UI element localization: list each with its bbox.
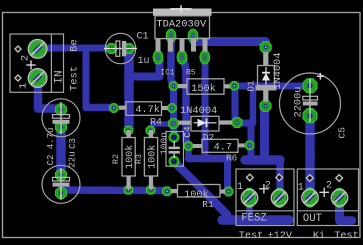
wire net-OUT R5.right down to D2.cathode xyxy=(232,88,239,119)
FESZ wire hole 1 xyxy=(246,174,253,181)
IN wire hole 2 xyxy=(15,46,21,52)
C2 plates xyxy=(53,102,70,134)
capacitor C5 outline xyxy=(280,73,341,134)
pad R4 left xyxy=(110,104,119,113)
svg-text:Test: Test xyxy=(69,66,81,91)
svg-text:IC1: IC1 xyxy=(160,69,175,78)
FESZ origin cross xyxy=(259,184,269,194)
wire net-12V horizontal xyxy=(245,155,280,165)
connector FESZ outline xyxy=(236,169,294,226)
wire net-INP up to TDA pin1 xyxy=(156,59,164,77)
wire net-IN1 IN.1 down xyxy=(34,77,43,109)
wire net-12V down to FESZ.2 xyxy=(276,160,284,194)
svg-text:2200u: 2200u xyxy=(293,87,305,118)
wire net-INM R5.left to D2.anode xyxy=(170,86,177,124)
pad R5 left xyxy=(169,82,178,91)
wire net-INM branch to R3.top xyxy=(153,121,174,127)
wire net-INP C1.right down column xyxy=(124,52,134,129)
wire net-BE to R4.left xyxy=(86,104,112,112)
D1 diode symbol xyxy=(262,67,270,85)
pad C3 minus xyxy=(56,188,67,199)
svg-text:C1: C1 xyxy=(136,31,148,42)
svg-text:1u: 1u xyxy=(137,56,149,67)
op-amp IC1 TDA2030V body xyxy=(155,16,210,39)
capacitor C4 100n outline xyxy=(166,132,184,167)
pad C2 minus xyxy=(56,122,67,133)
svg-text:1: 1 xyxy=(18,83,30,89)
svg-text:+12V: +12V xyxy=(268,231,293,242)
C3 plates xyxy=(53,168,70,200)
pad D1 cathode xyxy=(260,42,271,53)
resistor R6 body xyxy=(193,139,245,152)
svg-text:R3: R3 xyxy=(134,154,144,164)
svg-text:TDA2030V: TDA2030V xyxy=(156,19,207,31)
resistor R1 body xyxy=(171,185,225,198)
pad C5 plus xyxy=(303,79,317,93)
svg-text:150k: 150k xyxy=(191,83,215,95)
D2 diode symbol xyxy=(194,119,217,128)
pad C5 minus xyxy=(303,109,317,123)
pad R3 top xyxy=(146,126,155,135)
C5 plates xyxy=(303,79,318,122)
resistor R2 body xyxy=(122,130,135,189)
IN wire hole 1 xyxy=(15,75,21,81)
capacitor C1 outline xyxy=(105,33,135,63)
IN origin cross xyxy=(26,60,35,69)
pad R5 right xyxy=(230,82,239,91)
svg-text:OUT: OUT xyxy=(303,213,322,225)
pad IC1 pin 1 xyxy=(153,50,163,64)
pad OUT pin 1 xyxy=(302,188,318,207)
pad C4 bottom xyxy=(169,156,179,166)
svg-text:IN: IN xyxy=(53,70,65,83)
svg-text:R4: R4 xyxy=(150,117,162,128)
pad R1 right xyxy=(224,187,233,196)
wire net-OUT D2.cathode stub xyxy=(239,120,253,127)
svg-text:C4: C4 xyxy=(182,126,193,138)
resistor R4 body xyxy=(119,102,168,116)
C4 plates xyxy=(169,141,180,158)
svg-text:D1: D1 xyxy=(246,80,257,92)
wire net-GND FESZ.1 stub xyxy=(246,199,253,216)
OUT wire hole 2 xyxy=(336,175,343,182)
svg-text:4.7k: 4.7k xyxy=(135,104,159,116)
wire net-INP branch right xyxy=(129,73,160,81)
wire net-BE branch down at x86 xyxy=(83,48,90,106)
wire net-INM TDA pin2 down xyxy=(171,38,174,86)
svg-text:22u: 22u xyxy=(68,151,78,167)
connector OUT outline xyxy=(297,169,358,226)
wire net-GND C3.minus to R1.left xyxy=(61,186,165,194)
svg-text:FESZ: FESZ xyxy=(241,213,266,225)
OUT origin cross xyxy=(319,188,329,198)
svg-text:100n: 100n xyxy=(159,132,170,155)
pad R6 right xyxy=(245,141,254,150)
pad IN pin 2 xyxy=(28,40,47,59)
wire net-OUT into D1.top xyxy=(261,42,270,47)
pad IC1 pin 5 xyxy=(200,50,210,64)
resistor R5 body xyxy=(178,79,230,94)
IC1 origin cross xyxy=(170,5,191,12)
svg-text:1: 1 xyxy=(237,182,243,193)
pad IC1 pin 2 xyxy=(166,29,176,43)
pad R2 bottom xyxy=(124,186,133,195)
wire net-BE IN.2 to C1.left xyxy=(36,45,112,52)
svg-text:C3: C3 xyxy=(68,138,78,149)
wire net-IN1 to C2.plus xyxy=(38,104,59,113)
svg-text:2: 2 xyxy=(20,55,32,61)
pad IC1 pin 4 xyxy=(188,29,198,43)
wire net-12V D1.bottom down xyxy=(260,108,269,160)
svg-text:1N4004: 1N4004 xyxy=(180,105,217,117)
C5 plus mark xyxy=(317,73,324,80)
pad R1 left xyxy=(163,187,172,196)
pad FESZ pin 1 xyxy=(241,188,257,207)
pad D2 cathode xyxy=(232,118,242,128)
C1 plates xyxy=(104,41,137,56)
connector IN outline xyxy=(10,34,64,92)
wire net-INM D2.anode to C4.top xyxy=(170,124,178,137)
svg-text:Test: Test xyxy=(334,231,358,242)
svg-text:C5: C5 xyxy=(337,127,348,139)
pad C1 plus xyxy=(124,44,134,54)
wire OUT.2 down xyxy=(335,199,344,221)
transistor-package tab of IC1 xyxy=(153,9,212,16)
wire net-GND3 horizontal xyxy=(189,155,229,163)
capacitor C3 outline xyxy=(42,165,80,203)
svg-text:Test: Test xyxy=(239,231,263,242)
pad OUT pin 2 xyxy=(331,188,347,207)
resistor R3 body xyxy=(144,130,157,189)
pad IN pin 1 xyxy=(28,69,47,88)
svg-text:2: 2 xyxy=(326,181,332,192)
wire net-GND5 TDA pin5 down xyxy=(202,58,209,159)
pad R3 bottom xyxy=(147,186,156,195)
wire net-OUT branch down at x253 xyxy=(250,87,257,124)
wire net-GND3 R6.left stub down xyxy=(185,146,192,159)
wire net-GND3 down to R1.right xyxy=(224,159,231,189)
svg-text:R6: R6 xyxy=(226,152,238,163)
svg-text:Ki: Ki xyxy=(313,230,325,242)
svg-text:Be: Be xyxy=(69,39,81,52)
svg-text:2: 2 xyxy=(265,181,271,192)
diode D2 body xyxy=(178,116,232,131)
pad C1 minus xyxy=(107,44,117,54)
pad R6 left xyxy=(184,142,193,151)
svg-text:100k: 100k xyxy=(147,145,159,169)
wire net-OUT TDA pin4 to right xyxy=(194,37,266,46)
wire net-GND diagonal from C4.bottom xyxy=(175,163,227,215)
wire C2.minus to C3.plus xyxy=(56,124,66,176)
wire OUT.2 stub right xyxy=(340,216,353,225)
svg-text:R5: R5 xyxy=(186,69,196,78)
wire C5.minus to OUT.1 xyxy=(305,117,315,196)
OUT wire hole 1 xyxy=(306,175,313,182)
svg-text:1N4004: 1N4004 xyxy=(272,52,284,89)
pad IC1 pin 3 xyxy=(177,50,187,64)
pad D2 anode xyxy=(169,119,179,129)
pad C4 top xyxy=(169,132,179,142)
svg-text:1: 1 xyxy=(298,183,304,194)
pad C2 plus xyxy=(56,104,67,115)
IC1 legs xyxy=(156,39,208,52)
svg-text:R2: R2 xyxy=(111,154,121,164)
FESZ wire hole 2 xyxy=(276,174,283,181)
svg-text:R1: R1 xyxy=(202,199,214,210)
pad R4 right xyxy=(168,104,177,113)
svg-text:C2 4.7u: C2 4.7u xyxy=(46,128,56,166)
pad FESZ pin 2 xyxy=(271,188,287,207)
diode D1 body xyxy=(256,52,277,102)
pad C3 plus xyxy=(56,170,67,181)
wire net-OUT R5.right to C5.plus xyxy=(236,83,308,90)
pad D1 anode xyxy=(260,101,271,112)
wire net-INM into R3.top pad xyxy=(151,124,153,130)
wire net-GND3 TDA pin3 down to R6.left xyxy=(184,58,189,146)
wire net-OUT down to R6.right xyxy=(248,123,255,157)
pad R2 top xyxy=(124,126,133,135)
wire net-GND bottom rail xyxy=(222,215,289,225)
capacitor C2 outline xyxy=(42,99,80,137)
